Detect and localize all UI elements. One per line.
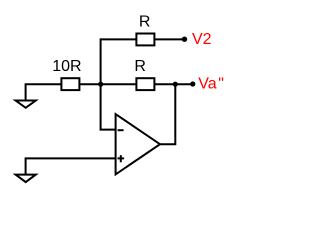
- op-amp plus pin mark: [118, 155, 125, 162]
- wire: [101, 38, 137, 40]
- node junction B: [173, 82, 178, 87]
- wire: [79, 83, 137, 85]
- wire: [26, 84, 62, 100]
- node junction A: [98, 82, 103, 87]
- node Va": [190, 81, 195, 86]
- resistor R1: [136, 34, 154, 46]
- svg-text:Va": Va": [198, 76, 224, 93]
- resistor R2: [136, 78, 154, 90]
- resistor 10R: [61, 78, 79, 90]
- svg-text:R: R: [139, 13, 151, 30]
- svg-text:V2: V2: [192, 31, 212, 48]
- ground: [16, 175, 36, 183]
- svg-text:R: R: [134, 58, 146, 75]
- wire: [160, 84, 175, 144]
- wire: [154, 83, 192, 85]
- wire: [101, 38, 116, 129]
- op-amp U1: [116, 114, 160, 174]
- wire: [154, 38, 184, 40]
- node V2: [182, 37, 187, 42]
- ground: [16, 101, 36, 108]
- svg-text:10R: 10R: [52, 58, 81, 75]
- op-amp minus pin mark: [118, 129, 124, 131]
- wire: [26, 158, 116, 174]
